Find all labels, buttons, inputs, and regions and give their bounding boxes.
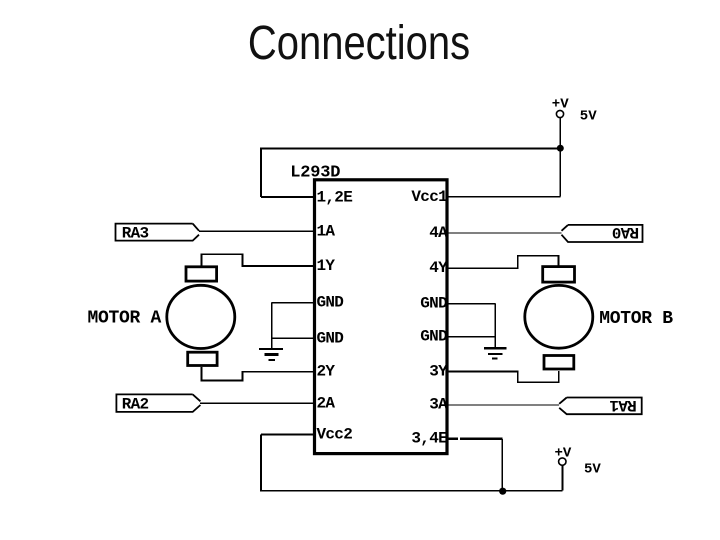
svg-text:GND: GND <box>317 329 344 347</box>
svg-text:1A: 1A <box>317 223 336 241</box>
svg-text:L293D: L293D <box>290 164 340 183</box>
svg-text:RA3: RA3 <box>122 224 149 242</box>
svg-text:MOTOR B: MOTOR B <box>599 309 673 329</box>
svg-text:1,2E: 1,2E <box>317 189 353 207</box>
svg-text:Connections: Connections <box>248 17 470 70</box>
svg-text:RA0: RA0 <box>612 223 639 241</box>
svg-text:5V: 5V <box>584 461 601 477</box>
svg-text:3Y: 3Y <box>429 363 448 381</box>
svg-text:GND: GND <box>420 295 447 313</box>
svg-text:2Y: 2Y <box>317 363 336 381</box>
svg-text:5V: 5V <box>580 109 597 125</box>
svg-text:RA2: RA2 <box>122 396 149 414</box>
svg-text:2A: 2A <box>317 394 336 412</box>
svg-text:4A: 4A <box>429 224 448 242</box>
svg-text:GND: GND <box>420 328 447 346</box>
svg-text:GND: GND <box>317 294 344 312</box>
svg-text:+V: +V <box>555 445 572 461</box>
svg-text:3A: 3A <box>429 396 448 414</box>
svg-text:RA1: RA1 <box>610 396 637 414</box>
svg-text:1Y: 1Y <box>317 257 336 275</box>
svg-text:+V: +V <box>552 96 569 112</box>
svg-text:3,4E: 3,4E <box>411 429 447 447</box>
svg-text:Vcc2: Vcc2 <box>317 425 353 443</box>
svg-text:4Y: 4Y <box>429 259 448 277</box>
svg-text:Vcc1: Vcc1 <box>411 188 447 206</box>
svg-text:MOTOR A: MOTOR A <box>88 309 162 329</box>
